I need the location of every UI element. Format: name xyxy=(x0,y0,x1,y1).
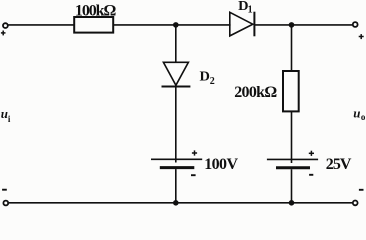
minus sign bottom-left xyxy=(2,189,7,191)
minus sign bottom-right xyxy=(359,189,364,191)
svg-text:100kΩ: 100kΩ xyxy=(75,2,117,19)
wire bottom rail xyxy=(9,202,352,204)
wire branch1 middle (D2 to battery) xyxy=(175,87,177,163)
node junction top (200k branch) xyxy=(289,22,295,28)
svg-text:2: 2 xyxy=(210,76,215,87)
wire branch2 upper (to 200k) xyxy=(291,25,293,71)
terminal output + (top-right) xyxy=(353,22,358,27)
svg-text:u: u xyxy=(353,105,360,120)
wire branch2 middle (200k to battery) xyxy=(291,111,293,163)
wire top rail right segment xyxy=(254,24,352,26)
svg-text:u: u xyxy=(1,106,8,121)
battery 100V minus sign xyxy=(191,174,196,176)
resistor R2 200k xyxy=(283,71,299,111)
svg-text:o: o xyxy=(361,112,366,122)
battery 25V minus sign xyxy=(309,174,313,176)
node junction bottom (branch1) xyxy=(173,200,179,206)
diode D2 xyxy=(162,62,191,86)
plus sign top-right xyxy=(359,34,364,39)
diode D1 xyxy=(230,12,255,37)
battery 100V plate + (long) xyxy=(151,158,202,160)
svg-text:100V: 100V xyxy=(204,156,238,173)
terminal input - (bottom-left) xyxy=(3,201,8,206)
svg-text:25V: 25V xyxy=(326,156,352,173)
wire top rail middle segment xyxy=(113,24,230,26)
wire branch1 lower (battery to bottom rail) xyxy=(175,169,177,203)
battery 25V plate + (long) xyxy=(267,158,318,160)
terminal output - (bottom-right) xyxy=(353,201,358,206)
battery 100V plus sign xyxy=(192,150,197,155)
node junction bottom (branch2) xyxy=(289,200,295,206)
battery 25V plate - (short thick) xyxy=(276,166,310,169)
svg-text:200kΩ: 200kΩ xyxy=(234,84,277,101)
terminal input + (top-left) xyxy=(3,23,8,28)
resistor R1 100k xyxy=(74,17,113,33)
battery 25V plus sign xyxy=(309,151,314,156)
plus sign top-left xyxy=(1,31,6,36)
wire branch2 lower (battery to bottom rail) xyxy=(291,169,293,203)
svg-text:D: D xyxy=(200,70,210,85)
wire top rail left segment xyxy=(8,24,74,26)
battery 100V plate - (short thick) xyxy=(160,166,195,169)
wire branch1 upper (to D2) xyxy=(175,25,177,62)
node junction top (D2 branch) xyxy=(173,22,179,28)
svg-text:1: 1 xyxy=(248,4,253,15)
